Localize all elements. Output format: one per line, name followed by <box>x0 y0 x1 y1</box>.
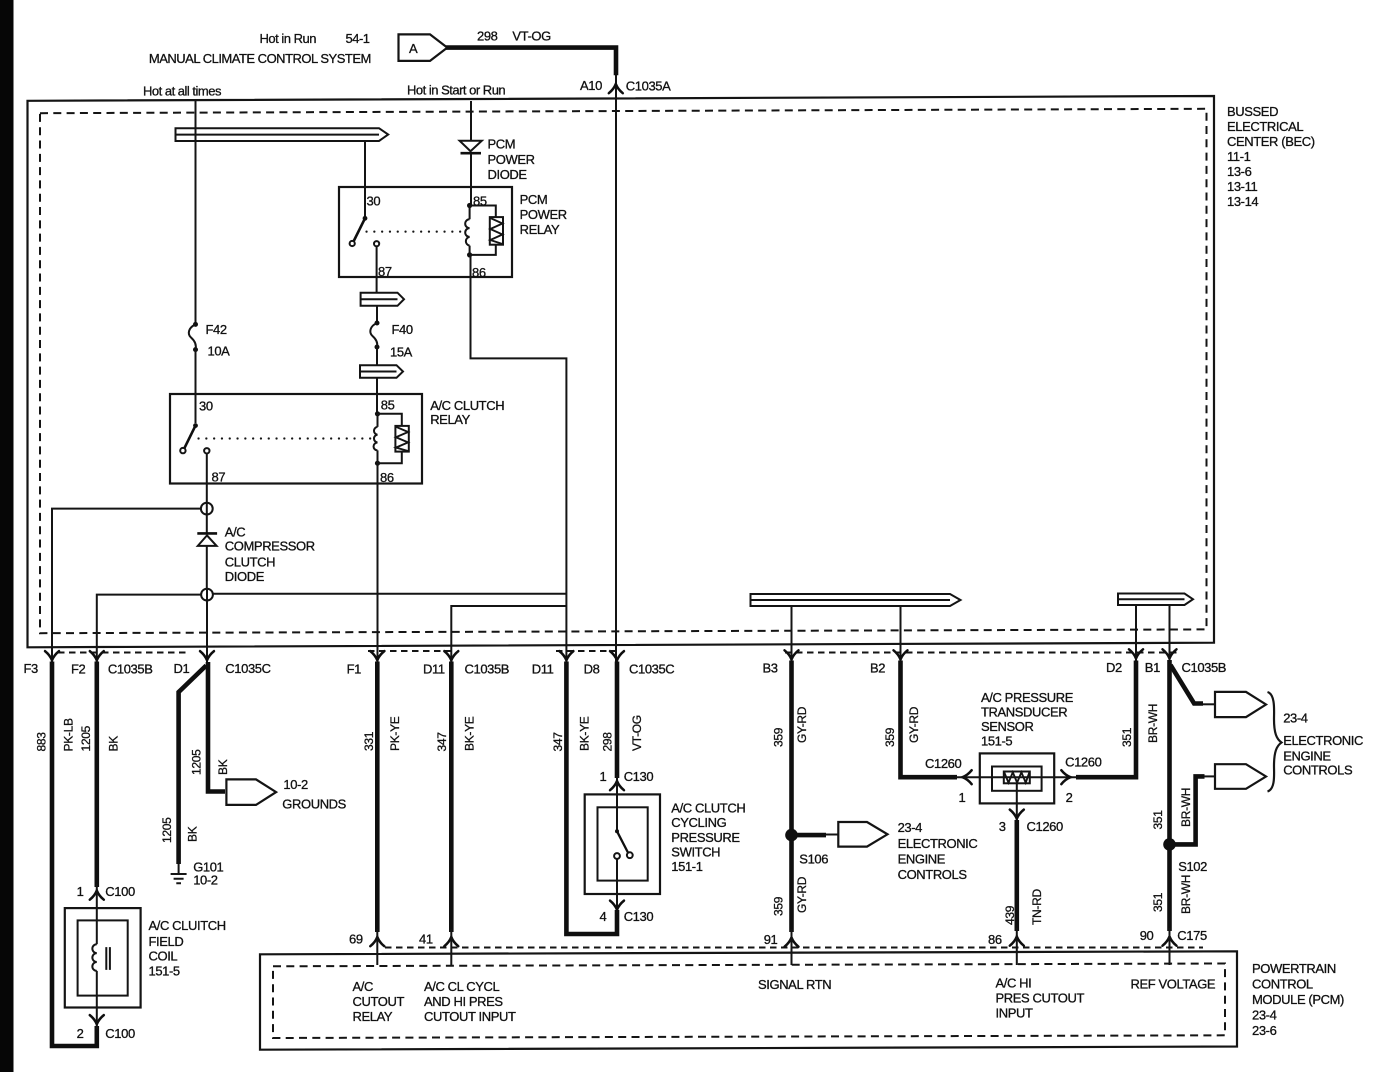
svg-text:91: 91 <box>764 932 778 947</box>
fuse F42 10A <box>189 322 230 359</box>
svg-text:F42: F42 <box>206 322 227 337</box>
svg-text:86: 86 <box>380 470 394 485</box>
svg-text:1205: 1205 <box>79 725 93 751</box>
wire into PCM <box>1169 928 1171 965</box>
svg-text:4: 4 <box>600 909 607 924</box>
svg-text:A/C: A/C <box>353 979 373 994</box>
wire: A10 feed down to D8 <box>615 101 617 663</box>
bus bar (ref voltage) <box>1118 594 1193 606</box>
svg-text:RELAY: RELAY <box>520 222 560 237</box>
splice S102 <box>1163 838 1176 851</box>
wire into PCM <box>450 929 452 965</box>
svg-text:CUTOUT: CUTOUT <box>353 994 405 1009</box>
wire 883 PK-LB: F3 down to coil return <box>52 662 97 1047</box>
field coil label <box>149 918 226 979</box>
PCM POWER RELAY box <box>339 187 512 277</box>
wire 331 PK-YE: F1 to PCM 69 <box>375 662 380 933</box>
svg-text:F2: F2 <box>71 662 86 677</box>
svg-text:23-4: 23-4 <box>1252 1008 1277 1023</box>
svg-text:A/C CLUTCH: A/C CLUTCH <box>671 800 745 815</box>
A/C pressure transducer sensor boxes <box>980 753 1054 803</box>
svg-text:SENSOR: SENSOR <box>981 719 1034 734</box>
svg-text:351: 351 <box>1120 727 1134 747</box>
svg-text:23-4: 23-4 <box>898 820 923 835</box>
svg-text:331: 331 <box>362 731 376 751</box>
svg-text:C1035B: C1035B <box>1182 660 1227 675</box>
BEC inner dashed box <box>40 109 1207 633</box>
EEC page arrow bottom <box>1215 764 1266 789</box>
svg-text:11-1: 11-1 <box>1227 149 1251 164</box>
BEC name label <box>1227 104 1315 209</box>
svg-text:151-5: 151-5 <box>149 964 180 979</box>
wire: bus drop B1 <box>1169 605 1171 661</box>
svg-text:30: 30 <box>199 399 213 414</box>
svg-text:RELAY: RELAY <box>353 1009 393 1024</box>
svg-text:BUSSED: BUSSED <box>1227 104 1278 119</box>
wire 1205 BK: F2 down to field coil <box>95 662 100 888</box>
connector pin 1 C1260 <box>963 770 972 784</box>
junction node circle <box>201 503 213 515</box>
svg-text:87: 87 <box>378 264 392 279</box>
wire: lower node to F2 drop <box>97 595 201 663</box>
wire: diode to lower junction node <box>206 546 208 589</box>
svg-text:C1035B: C1035B <box>465 662 510 677</box>
wire <box>376 347 378 365</box>
svg-text:86: 86 <box>472 265 486 280</box>
connector pin 69 <box>370 937 384 946</box>
svg-text:CYCLING: CYCLING <box>671 815 726 830</box>
wire: EEC bottom arrow to S102 <box>1174 776 1215 844</box>
PCM inner dashed box <box>273 964 1225 1039</box>
wire 351 BR-WH: S102 to PCM 90 <box>1167 849 1172 931</box>
wire 359 GY-RD: B2 to sensor pin 1 <box>901 661 958 778</box>
svg-text:351: 351 <box>1151 892 1165 912</box>
PCM power relay switch <box>350 216 380 246</box>
svg-text:A10: A10 <box>580 78 602 93</box>
svg-text:CUTOUT INPUT: CUTOUT INPUT <box>424 1009 516 1024</box>
wire: PCM relay pin 86 down and across <box>471 255 567 663</box>
svg-text:BK-YE: BK-YE <box>463 716 477 751</box>
svg-text:POWER: POWER <box>488 152 535 167</box>
splice S106 <box>785 829 798 842</box>
sensor pin 3 wire <box>1016 783 1018 823</box>
PCM connector dashed line <box>385 947 1203 949</box>
svg-text:S106: S106 <box>799 852 828 867</box>
connector D11 C1035B <box>444 651 458 660</box>
svg-text:Hot at all times: Hot at all times <box>143 84 222 99</box>
EEC label right <box>1283 711 1363 778</box>
wire 298 VT-OG: D8 to pressure switch pin 1 <box>615 662 620 779</box>
svg-text:C100: C100 <box>105 1026 135 1041</box>
fuse F40 15A <box>370 321 413 360</box>
wire: to A/C clutch relay pin 85 <box>376 378 378 414</box>
svg-text:VT-OG: VT-OG <box>512 29 551 44</box>
connector B3 <box>785 650 799 659</box>
svg-text:C1035C: C1035C <box>225 661 270 676</box>
svg-text:C1035A: C1035A <box>626 79 671 94</box>
bus bar (hot at all times feed) <box>176 128 389 141</box>
svg-text:D8: D8 <box>584 662 600 677</box>
svg-text:B1: B1 <box>1145 660 1160 675</box>
connector pin 3 C1260 <box>1010 810 1024 819</box>
pressure switch contacts <box>614 775 633 913</box>
svg-text:347: 347 <box>435 732 449 752</box>
wire into BEC at A10 <box>615 75 617 101</box>
wire 359 GY-RD: B3 to S106 <box>789 661 794 831</box>
svg-text:ELECTRONIC: ELECTRONIC <box>898 836 978 851</box>
svg-text:CONTROL: CONTROL <box>1252 977 1313 992</box>
PCM power relay coil resistor <box>470 206 503 255</box>
svg-text:151-5: 151-5 <box>981 734 1012 749</box>
A/C CLUTCH CYCLING PRESSURE SWITCH boxes <box>585 794 660 894</box>
wire 298 VT-OG from connector A <box>446 48 616 76</box>
connector B1 C1035B <box>1163 649 1177 658</box>
svg-text:A/C CLUITCH: A/C CLUITCH <box>149 918 226 933</box>
svg-text:D1: D1 <box>174 661 190 676</box>
PCM input label: A/C CUTOUT RELAY <box>353 979 405 1024</box>
svg-text:SWITCH: SWITCH <box>671 844 720 859</box>
svg-text:B3: B3 <box>763 661 778 676</box>
svg-text:351: 351 <box>1151 810 1165 830</box>
A/C clutch relay dotted actuation line <box>199 437 373 439</box>
svg-text:A/C PRESSURE: A/C PRESSURE <box>981 690 1074 705</box>
svg-text:F3: F3 <box>24 661 39 676</box>
svg-text:13-14: 13-14 <box>1227 194 1258 209</box>
field coil winding <box>92 944 110 971</box>
wire 439 TN-RD: sensor 3 to PCM 86 <box>1014 820 1019 931</box>
svg-text:10A: 10A <box>208 344 231 359</box>
connector F2 C1035B <box>90 651 104 660</box>
wire 1205 BK: D1 to GROUNDS arrow <box>208 662 225 792</box>
connector A (page reference arrow) <box>399 34 448 61</box>
svg-text:PCM: PCM <box>488 137 516 152</box>
wire: PCM relay pin 87 to fuse F40 <box>376 246 378 292</box>
GROUNDS page arrow <box>226 777 346 812</box>
svg-text:C1260: C1260 <box>1065 754 1101 769</box>
connector D1 C1035C <box>200 651 214 660</box>
svg-text:23-6: 23-6 <box>1252 1023 1277 1038</box>
A/C CLUTCH RELAY box <box>170 394 422 484</box>
svg-text:VT-OG: VT-OG <box>630 715 644 751</box>
connector row dashed line segments <box>58 652 190 654</box>
wire 347 BK-YE: D11 to PCM 41 <box>449 662 454 933</box>
svg-text:PRESSURE: PRESSURE <box>671 830 740 845</box>
svg-text:CLUTCH: CLUTCH <box>225 554 275 569</box>
A/C clutch relay switch <box>180 423 209 453</box>
svg-text:BR-WH: BR-WH <box>1146 704 1160 743</box>
svg-text:A/C: A/C <box>225 524 245 539</box>
svg-text:COMPRESSOR: COMPRESSOR <box>225 539 315 554</box>
svg-text:87: 87 <box>212 470 226 485</box>
svg-text:GY-RD: GY-RD <box>907 706 921 743</box>
connector pin 86 <box>1010 937 1024 946</box>
EEC page arrow (S106) <box>838 822 887 847</box>
sensor resistor element <box>1004 772 1030 784</box>
svg-text:ENGINE: ENGINE <box>898 852 946 867</box>
svg-text:2: 2 <box>77 1026 84 1041</box>
svg-text:10-2: 10-2 <box>283 777 308 792</box>
svg-text:41: 41 <box>419 932 433 947</box>
svg-text:3: 3 <box>999 819 1006 834</box>
connector D2 <box>1129 649 1143 658</box>
svg-text:F40: F40 <box>392 322 413 337</box>
PCM outer box <box>260 951 1237 1049</box>
svg-text:Hot in Start or Run: Hot in Start or Run <box>407 83 505 98</box>
svg-text:ELECTRONIC: ELECTRONIC <box>1283 733 1363 748</box>
connector pin 2 C100 <box>90 1015 104 1024</box>
A/C CLUTCH RELAY label <box>430 398 504 427</box>
svg-text:CONTROLS: CONTROLS <box>1283 762 1353 777</box>
svg-text:298: 298 <box>477 29 498 44</box>
svg-text:RELAY: RELAY <box>430 412 470 427</box>
svg-text:23-4: 23-4 <box>1283 711 1308 726</box>
wire: bus drop B2 <box>900 606 902 662</box>
svg-text:REF VOLTAGE: REF VOLTAGE <box>1131 977 1216 992</box>
connector D11 (second) <box>559 651 573 660</box>
wire 351: sensor pin 2 to D2 <box>1076 661 1136 778</box>
wire: Hot in Start or Run down to PCM power diode <box>470 101 472 141</box>
connector pin A10 C1035A <box>609 84 623 93</box>
svg-text:86: 86 <box>988 932 1002 947</box>
wire: bus drop B3 <box>791 606 793 662</box>
svg-text:ELECTRICAL: ELECTRICAL <box>1227 119 1303 134</box>
svg-text:GY-RD: GY-RD <box>795 876 809 913</box>
PCM input label: A/C CL CYCL AND HI PRES CUTOUT INPUT <box>424 979 516 1024</box>
svg-text:C1260: C1260 <box>925 756 961 771</box>
connector pin 1 C100 <box>90 891 104 900</box>
PCM label: A/C HI PRES CUTOUT INPUT <box>996 976 1085 1021</box>
connector pin 91 <box>785 938 799 947</box>
svg-text:439: 439 <box>1003 905 1017 925</box>
svg-text:PCM: PCM <box>520 192 548 207</box>
ground G101 <box>171 860 224 888</box>
wire 359 GY-RD: S106 to PCM 91 <box>789 840 794 932</box>
wire: lower node right to relay 86 net <box>213 593 567 595</box>
connector pin 4 C130 <box>610 901 624 910</box>
svg-text:COIL: COIL <box>149 949 178 964</box>
svg-text:1: 1 <box>77 884 84 899</box>
wire: B1 branch to EEC arrow (top) <box>1171 665 1216 704</box>
wire <box>376 306 378 323</box>
svg-text:69: 69 <box>349 932 363 947</box>
svg-text:ENGINE: ENGINE <box>1283 749 1331 764</box>
svg-text:MANUAL CLIMATE CONTROL SYSTEM: MANUAL CLIMATE CONTROL SYSTEM <box>149 51 371 66</box>
connector pin 90 C175 <box>1163 937 1177 946</box>
svg-text:PK-LB: PK-LB <box>62 718 76 751</box>
svg-text:13-11: 13-11 <box>1227 179 1257 194</box>
wire: A/C relay pin 86 to F1 <box>377 463 379 663</box>
svg-text:DIODE: DIODE <box>488 167 528 182</box>
svg-text:1: 1 <box>600 769 607 784</box>
svg-text:15A: 15A <box>390 345 413 360</box>
svg-text:A/C CL CYCL: A/C CL CYCL <box>424 979 499 994</box>
wire 1205 BK: D1 to G101 <box>179 666 207 865</box>
svg-text:C130: C130 <box>624 909 654 924</box>
svg-text:F1: F1 <box>347 662 362 677</box>
wire: node to A/C compressor clutch diode <box>206 515 208 534</box>
wire into PCM <box>791 929 793 965</box>
A/C clutch relay coil <box>374 411 381 466</box>
wire into PCM <box>376 929 378 965</box>
svg-text:POWER: POWER <box>520 207 567 222</box>
wire out of coil <box>96 971 98 1029</box>
wire: hot at all times down to fuse F42 <box>195 101 197 324</box>
svg-text:BK: BK <box>186 826 200 842</box>
svg-text:359: 359 <box>883 727 897 747</box>
svg-text:PRES CUTOUT: PRES CUTOUT <box>996 991 1085 1006</box>
svg-text:S102: S102 <box>1178 859 1207 874</box>
svg-text:347: 347 <box>551 732 565 752</box>
bus bar (signal return) <box>751 594 961 606</box>
svg-text:13-6: 13-6 <box>1227 164 1252 179</box>
wire: S106 to EEC arrow <box>796 833 826 838</box>
A/C CLUTCH FIELD COIL boxes <box>65 908 141 1007</box>
connector F3 <box>45 651 59 660</box>
svg-text:2: 2 <box>1066 790 1073 805</box>
svg-text:883: 883 <box>35 732 49 752</box>
A/C clutch relay coil resistor <box>378 414 409 463</box>
svg-text:BR-WH: BR-WH <box>1179 875 1193 914</box>
EEC label at S106 <box>898 820 978 882</box>
svg-text:C1035C: C1035C <box>629 662 674 677</box>
svg-text:1: 1 <box>959 790 966 805</box>
svg-text:54-1: 54-1 <box>346 31 370 46</box>
svg-text:359: 359 <box>772 727 786 747</box>
connector pin 41 <box>444 937 458 946</box>
svg-text:BK: BK <box>107 736 121 752</box>
wire: F42 to A/C clutch relay pin 30 <box>195 350 197 424</box>
EEC page arrow top <box>1215 692 1266 717</box>
wire: A/C relay pin 87 down <box>206 454 208 503</box>
brace <box>1268 692 1282 792</box>
wire: bus drop D2 <box>1135 605 1137 661</box>
svg-text:FIELD: FIELD <box>149 934 184 949</box>
bus arrow below F40 <box>360 365 403 378</box>
wire 347 BK-YE: D11 to pressure switch pin 4 <box>566 662 617 935</box>
connector pin 2 C1260 <box>1061 770 1070 784</box>
BEC outer box <box>28 96 1215 647</box>
svg-text:30: 30 <box>367 194 381 209</box>
svg-text:10-2: 10-2 <box>193 873 218 888</box>
svg-text:C1035B: C1035B <box>108 662 153 677</box>
svg-text:151-1: 151-1 <box>671 859 702 874</box>
bus arrow above F40 <box>361 293 404 306</box>
svg-text:GROUNDS: GROUNDS <box>282 797 346 812</box>
scan edge bar <box>0 0 14 1072</box>
svg-text:DIODE: DIODE <box>225 569 265 584</box>
svg-text:C100: C100 <box>105 884 135 899</box>
wire: bus bar drop to PCM power relay pin 30 <box>364 141 366 217</box>
svg-text:1205: 1205 <box>190 749 204 775</box>
svg-text:TRANSDUCER: TRANSDUCER <box>981 705 1067 720</box>
wire into PCM <box>1016 928 1018 965</box>
svg-text:1205: 1205 <box>160 817 174 843</box>
wire: branch to D11 <box>451 606 566 663</box>
svg-text:298: 298 <box>601 732 615 752</box>
svg-text:90: 90 <box>1140 928 1154 943</box>
wire into coil <box>96 884 98 944</box>
svg-text:CONTROLS: CONTROLS <box>898 867 968 882</box>
svg-text:C130: C130 <box>624 769 654 784</box>
svg-text:SIGNAL RTN: SIGNAL RTN <box>758 977 831 992</box>
connector pin 1 C130 <box>610 781 624 790</box>
svg-text:C1260: C1260 <box>1027 819 1063 834</box>
svg-text:A/C HI: A/C HI <box>996 976 1032 991</box>
svg-text:BK-YE: BK-YE <box>578 716 592 751</box>
svg-text:A/C CLUTCH: A/C CLUTCH <box>430 398 504 413</box>
A/C compressor clutch diode <box>197 524 314 584</box>
POWERTRAIN CONTROL MODULE label <box>1252 961 1344 1038</box>
svg-text:85: 85 <box>381 398 395 413</box>
sensor through wire <box>955 776 1078 778</box>
svg-text:GY-RD: GY-RD <box>795 706 809 743</box>
connector F1 <box>370 651 384 660</box>
PCM POWER RELAY label <box>520 192 567 237</box>
wire: diode to PCM power relay coil pin 85 <box>470 154 472 206</box>
svg-text:PK-YE: PK-YE <box>388 716 402 751</box>
svg-text:Hot in Run: Hot in Run <box>260 31 317 46</box>
connector B2 <box>894 650 908 659</box>
svg-text:A: A <box>409 41 418 56</box>
svg-text:D11: D11 <box>423 662 445 677</box>
svg-text:B2: B2 <box>870 661 885 676</box>
connector D8 C1035C <box>610 651 624 660</box>
PCM power relay coil <box>465 203 472 258</box>
svg-text:INPUT: INPUT <box>996 1006 1033 1021</box>
svg-text:C175: C175 <box>1177 928 1207 943</box>
svg-text:MODULE (PCM): MODULE (PCM) <box>1252 992 1344 1007</box>
svg-text:POWERTRAIN: POWERTRAIN <box>1252 961 1336 976</box>
svg-text:D11: D11 <box>532 662 554 677</box>
svg-text:BR-WH: BR-WH <box>1179 788 1193 827</box>
svg-text:359: 359 <box>772 896 786 916</box>
wire 351 BR-WH: B1 down to S102 <box>1167 660 1172 840</box>
junction node circle lower <box>201 589 213 663</box>
svg-text:CENTER (BEC): CENTER (BEC) <box>1227 134 1315 149</box>
A/C PRESSURE TRANSDUCER SENSOR label <box>981 690 1074 749</box>
pressure switch label <box>671 800 745 874</box>
svg-text:AND HI PRES: AND HI PRES <box>424 994 503 1009</box>
wire: node to F3 drop <box>52 509 201 663</box>
PCM power relay dotted actuation line <box>367 231 465 233</box>
svg-text:TN-RD: TN-RD <box>1030 889 1044 925</box>
PCM power diode <box>460 137 535 183</box>
svg-text:D2: D2 <box>1106 660 1122 675</box>
svg-text:BK: BK <box>216 759 230 775</box>
